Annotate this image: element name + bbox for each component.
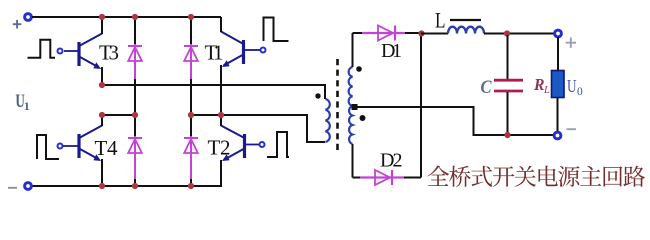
wire T1 drive pulse <box>264 18 289 42</box>
node filter bottom junction <box>504 132 510 138</box>
diode anti-parallel across T1 <box>184 19 198 115</box>
node -OUT terminal <box>554 132 561 139</box>
label - output <box>567 128 577 130</box>
node secondary lower polarity dot <box>360 115 366 121</box>
label - input <box>8 187 17 189</box>
wire T4 base <box>63 145 78 147</box>
node T1 base terminal <box>261 48 266 53</box>
transistor T1 <box>221 32 244 68</box>
svg-text:U: U <box>567 76 577 96</box>
junction node B on lower mid rail <box>218 112 224 118</box>
junction node A to primary-top rail <box>99 82 105 88</box>
svg-text:T4: T4 <box>95 136 119 160</box>
transformer secondary lower winding <box>349 106 352 144</box>
inductor L winding <box>448 27 484 34</box>
junction T4 emitter on - rail <box>99 183 105 189</box>
wire top rail <box>32 16 221 18</box>
wire T2 drive pulse <box>267 132 289 157</box>
wire D2 cathode to L input <box>420 34 422 178</box>
junction upper-left diode anode to node A <box>132 112 138 118</box>
wire secondary top lead <box>352 33 354 67</box>
wire load bottom lead <box>557 98 559 133</box>
wire T3 base <box>64 50 78 52</box>
transformer secondary upper winding <box>349 67 353 106</box>
node +OUT terminal <box>555 30 562 37</box>
wire capacitor bottom lead <box>507 92 509 135</box>
diode anti-parallel across T3 <box>128 19 142 115</box>
diode anti-parallel across T2 <box>184 115 198 186</box>
node -IN terminal <box>25 183 32 190</box>
diode D2 <box>353 170 422 185</box>
node filter top junction <box>504 30 510 36</box>
wire load top lead <box>557 37 559 71</box>
transformer primary winding <box>326 99 330 142</box>
wire T4 emitter to bottom rail <box>101 159 103 186</box>
node +IN terminal <box>25 14 32 21</box>
wire T3 emitter to node A <box>101 67 103 85</box>
junction lower-left diode anode on - rail <box>132 183 138 189</box>
wire upper mid rail to primary top <box>102 85 325 99</box>
svg-text:T1: T1 <box>205 41 224 65</box>
junction node A on lower mid rail <box>99 112 105 118</box>
svg-text:L: L <box>435 8 446 33</box>
wire T2 emitter to bottom rail <box>32 160 221 186</box>
diode D1 <box>353 26 422 41</box>
svg-text:0: 0 <box>577 86 583 98</box>
svg-text:T3: T3 <box>99 41 119 65</box>
junction upper-right diode cathode on + rail <box>188 14 194 20</box>
node rectifier junction <box>418 30 424 36</box>
junction lower-right diode anode on - rail <box>188 183 194 189</box>
svg-text:T2: T2 <box>208 136 231 160</box>
capacitor C <box>494 80 523 91</box>
wire T3 drive pulse <box>28 40 56 58</box>
svg-text:D1: D1 <box>381 40 402 62</box>
label + output <box>566 38 576 48</box>
diode anti-parallel across T4 <box>128 115 142 186</box>
svg-text:C: C <box>481 77 492 98</box>
svg-text:1: 1 <box>24 99 30 113</box>
wire lower mid rail segment B to primary bottom <box>191 115 325 142</box>
transistor T2 <box>221 126 245 162</box>
junction upper-right diode anode on node B rail <box>188 112 194 118</box>
wire center tap to output return <box>353 107 554 135</box>
wire T4 collector to node A <box>101 115 103 126</box>
wire T4 drive pulse <box>37 135 59 159</box>
wire T1 emitter to node B <box>220 65 222 115</box>
inductor L core bar <box>450 19 481 21</box>
svg-text:L: L <box>543 85 550 96</box>
label title full-bridge switching power supply main circuit <box>427 166 645 187</box>
wire capacitor top lead <box>507 35 509 79</box>
node secondary top polarity dot <box>356 66 362 72</box>
wire lower mid rail segment A <box>102 114 135 116</box>
node T2 base terminal <box>260 142 265 147</box>
node T3 base terminal <box>58 49 63 54</box>
wire T1 base <box>245 49 261 51</box>
svg-text:D2: D2 <box>380 150 403 172</box>
transistor T3 <box>79 34 102 70</box>
transistor T4 <box>79 126 102 162</box>
label + input <box>13 20 22 29</box>
wire T2 collector to node B <box>220 115 222 126</box>
wire T1 collector to rail <box>220 17 222 32</box>
wire T3 collector to rail <box>101 17 103 34</box>
wire secondary bottom lead <box>352 144 354 178</box>
junction T3 collector on + rail <box>99 14 105 20</box>
node T4 base terminal <box>58 144 63 149</box>
transformer core <box>336 59 339 153</box>
wire T2 base <box>246 144 259 146</box>
resistor RL <box>552 71 565 98</box>
junction upper-left diode cathode on + rail <box>132 14 138 20</box>
wire inductor to +OUT <box>484 33 554 35</box>
svg-text:R: R <box>533 75 544 94</box>
node primary polarity dot <box>315 93 320 98</box>
node center tap <box>352 104 358 110</box>
wire junction to inductor <box>421 33 448 35</box>
